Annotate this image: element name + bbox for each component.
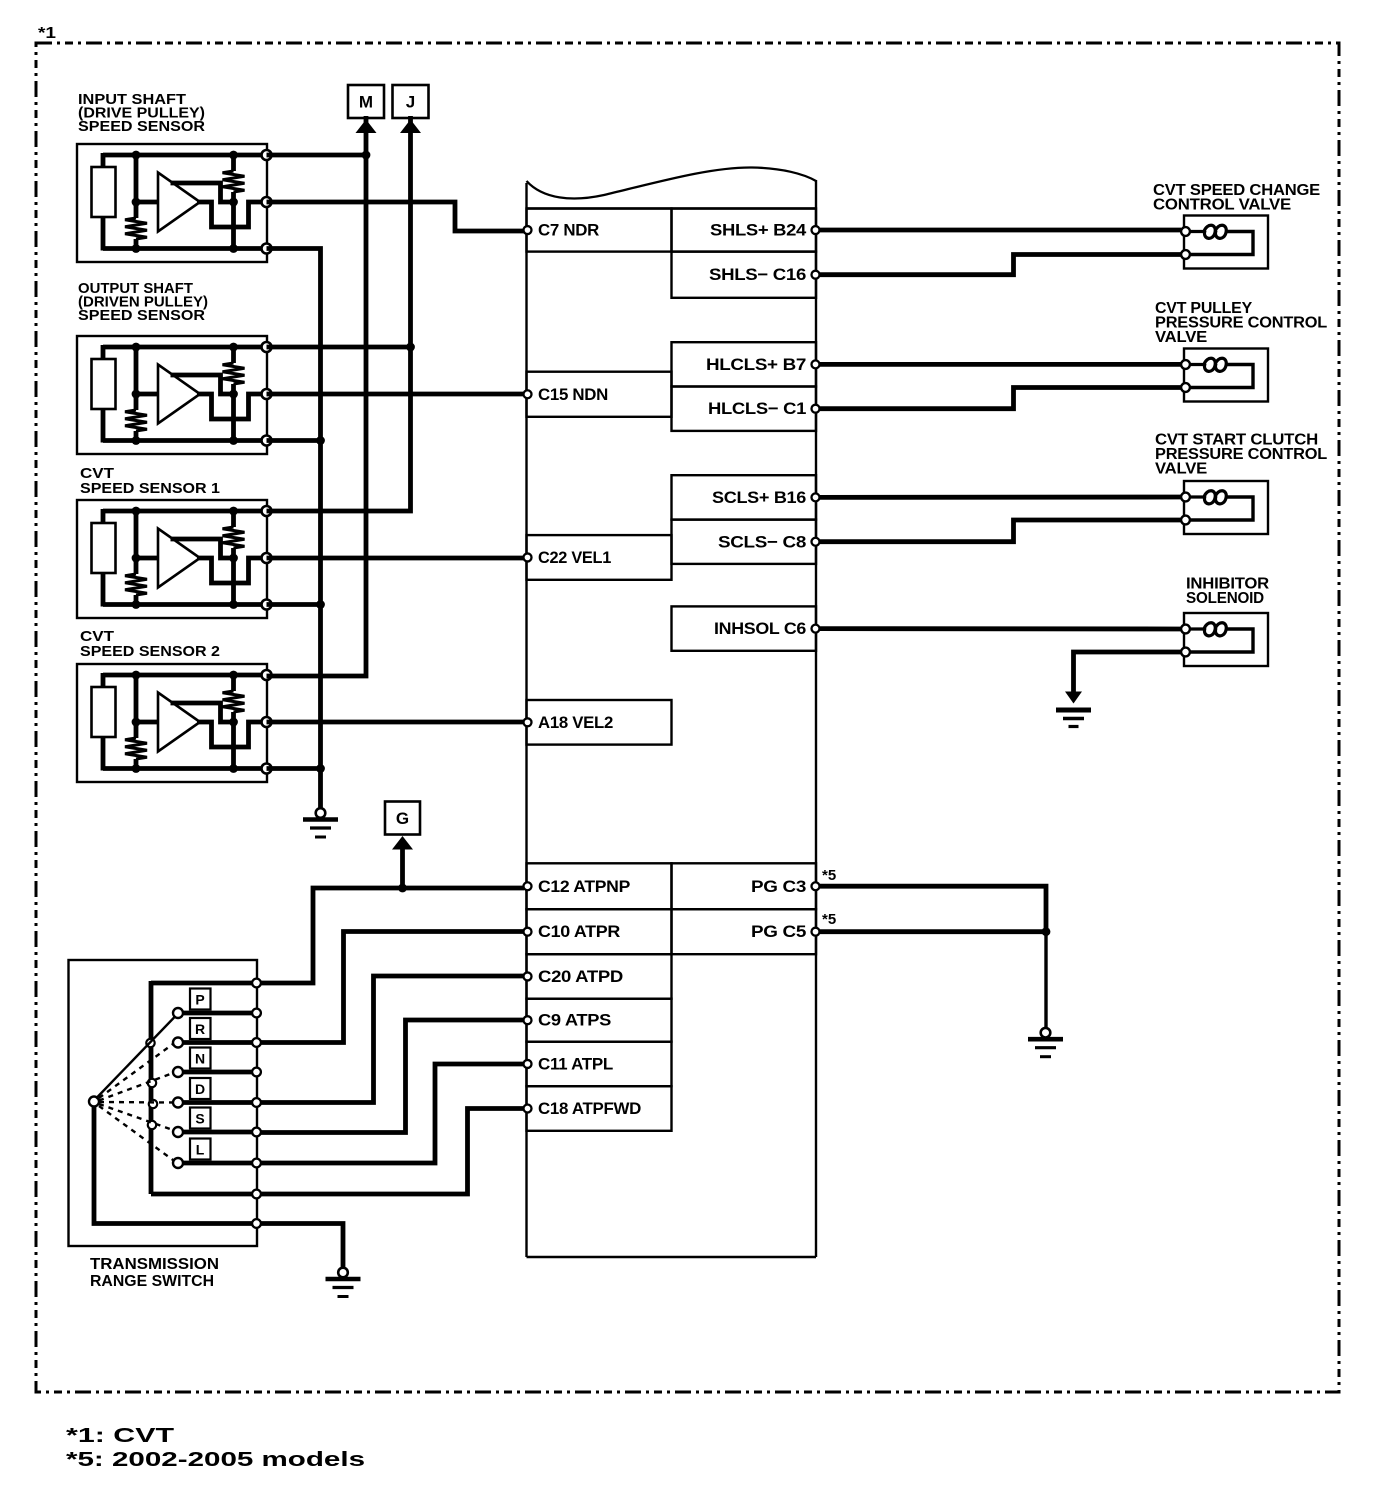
svg-text:TRANSMISSION: TRANSMISSION: [90, 1256, 219, 1273]
svg-text:S: S: [195, 1111, 204, 1127]
connector J arrow: [400, 120, 421, 134]
svg-text:R: R: [195, 1021, 205, 1037]
svg-text:SOLENOID: SOLENOID: [1186, 590, 1264, 607]
wire: PG junction down to ground: [1044, 932, 1047, 1029]
CVT speed sensor 2 resistor R2 (feedback): [223, 691, 245, 712]
svg-text:SHLS− C16: SHLS− C16: [709, 265, 806, 284]
wire: INHSOL C6 to inhibitor solenoid: [819, 626, 1181, 631]
wire: ECU C11 ATPL to range switch L contact row: [259, 1064, 524, 1163]
ground (transmission range switch): [338, 1268, 348, 1278]
input shaft (drive pulley) speed sensor terminal pins: [262, 150, 272, 160]
inhibitor solenoid coil return wire: [1189, 629, 1253, 652]
ECU pin INHSOL C6 terminal: [812, 625, 820, 633]
ECU pin SCLS+ B16 terminal: [812, 493, 820, 501]
range switch position label R: [190, 1018, 211, 1039]
range switch N contact row wire: [183, 1070, 257, 1075]
range switch S contact: [173, 1127, 183, 1137]
range switch wiper throw to L (dashed): [99, 1106, 173, 1160]
ECU pin cell PG C3: [672, 863, 817, 909]
output shaft (driven pulley) speed sensor junction dots: [132, 343, 141, 352]
input shaft (drive pulley) speed sensor sensing element (magnetic pickup): [92, 167, 116, 217]
wire: ECU C20 ATPD to range switch D contact row: [259, 976, 524, 1103]
wire: HLCLS+ B7 to CVT pulley pressure control valve: [819, 362, 1181, 367]
transmission range switch outer box: [69, 960, 258, 1246]
CVT speed sensor 1 feedback branch wire: [231, 511, 236, 527]
output shaft (driven pulley) speed sensor internal bottom rail wire: [103, 438, 267, 443]
svg-text:HLCLS+ B7: HLCLS+ B7: [706, 355, 806, 374]
ECU pin C20 ATPD terminal: [524, 972, 532, 980]
svg-text:SHLS+ B24: SHLS+ B24: [710, 221, 807, 240]
wire: ECU C9 ATPS to range switch S contact row: [259, 1020, 524, 1133]
svg-text:*1: *1: [38, 25, 56, 42]
ECU pin SHLS- C16 terminal: [812, 271, 820, 279]
input shaft (drive pulley) speed sensor feedback wire: [171, 183, 234, 202]
ECU pin HLCLS+ B7 terminal: [812, 360, 820, 368]
CVT pulley pressure control valve terminal pins: [1181, 360, 1190, 369]
ECU pin C7 NDR terminal: [524, 226, 532, 234]
svg-text:RANGE SWITCH: RANGE SWITCH: [90, 1273, 214, 1290]
range switch position label L: [190, 1139, 211, 1160]
ECU pin cell C7 NDR: [527, 209, 672, 252]
svg-text:SCLS+ B16: SCLS+ B16: [712, 488, 806, 507]
svg-text:P: P: [195, 992, 204, 1008]
output shaft (driven pulley) speed sensor left rail wire with sensing element: [101, 345, 106, 361]
svg-text:M: M: [359, 93, 373, 112]
output shaft (driven pulley) speed sensor feedback wire: [171, 375, 234, 394]
ECU pin cell C18 ATPFWD: [527, 1086, 672, 1131]
CVT speed sensor 1 feedback wire: [171, 539, 234, 558]
ECU pin cell C22 VEL1: [527, 535, 672, 580]
ECU pin cell C10 ATPR: [527, 909, 672, 954]
svg-text:C12 ATPNP: C12 ATPNP: [538, 877, 630, 896]
range switch L contact: [173, 1158, 183, 1168]
ECU box bottom edge: [527, 1256, 817, 1258]
connector G box: [385, 802, 420, 835]
wire: SHLS- C16 to CVT speed change control valve: [819, 255, 1181, 275]
ECU pin C22 VEL1 terminal: [524, 553, 532, 561]
wire: M connector vertical to CVT speed sensor 2 top: [267, 116, 367, 676]
wire: SHLS+ B24 to CVT speed change control valve: [819, 228, 1181, 233]
ECU pin PG C3 terminal: [812, 882, 820, 890]
ECU pin cell SCLS+ B16: [672, 475, 817, 519]
CVT speed sensor 2 bias branch wire: [134, 675, 139, 738]
ECU pin C11 ATPL terminal: [524, 1060, 532, 1068]
ECU pin cell C9 ATPS: [527, 999, 672, 1042]
input shaft (drive pulley) speed sensor junction dots: [132, 151, 141, 160]
CVT speed sensor 2 internal bottom rail wire: [103, 766, 267, 771]
ECU pin cell HLCLS+ B7: [672, 342, 817, 386]
CVT speed sensor 1 sensing element (magnetic pickup): [92, 523, 116, 573]
svg-text:C11 ATPL: C11 ATPL: [538, 1054, 613, 1073]
wire: ECU C10 ATPR to range switch R contact row: [259, 932, 524, 1043]
svg-text:*5: 2002-2005 models: *5: 2002-2005 models: [66, 1449, 365, 1471]
junction: J wire to output shaft sensor top: [406, 343, 415, 352]
ECU pin cell C11 ATPL: [527, 1042, 672, 1087]
wire: CVT speed sensor 1 ground to bus: [267, 602, 321, 607]
output shaft (driven pulley) speed sensor op-amp: [158, 365, 200, 424]
range switch position label S: [190, 1108, 211, 1129]
svg-text:INHSOL C6: INHSOL C6: [714, 619, 806, 638]
range switch position label D: [190, 1078, 211, 1099]
connector J box: [393, 85, 429, 118]
range switch P contact row wire: [183, 1011, 257, 1016]
svg-text:G: G: [396, 809, 409, 828]
svg-text:VALVE: VALVE: [1155, 461, 1207, 478]
range switch common pole contact: [89, 1097, 99, 1107]
input shaft (drive pulley) speed sensor feedback branch wire: [231, 155, 236, 171]
svg-text:SPEED SENSOR 2: SPEED SENSOR 2: [80, 643, 220, 660]
CVT speed sensor 1 junction dots: [132, 507, 141, 516]
input shaft (drive pulley) speed sensor bias branch wire: [134, 155, 139, 218]
wire: ECU C12 ATPNP to range switch common row: [259, 888, 524, 983]
svg-text:C9 ATPS: C9 ATPS: [538, 1011, 611, 1030]
CVT start clutch pressure control valve coil return wire: [1189, 497, 1253, 520]
svg-text:VALVE: VALVE: [1155, 329, 1207, 346]
ECU pin cell C15 NDN: [527, 372, 672, 417]
range switch D contact: [173, 1098, 183, 1108]
svg-text:J: J: [406, 93, 415, 112]
svg-text:SPEED SENSOR: SPEED SENSOR: [78, 307, 205, 324]
connector G arrow: [392, 836, 413, 850]
CVT speed sensor 1 resistor R2 (feedback): [223, 527, 245, 548]
input shaft (drive pulley) speed sensor op-amp input wire: [136, 200, 159, 205]
wire: PG C5 to ground: [819, 929, 1046, 934]
svg-text:SPEED SENSOR: SPEED SENSOR: [78, 118, 205, 135]
svg-text:C15 NDN: C15 NDN: [538, 385, 608, 404]
ground (speed sensors): [316, 808, 326, 818]
wire: G connector to ECU C12 ATPNP wire: [400, 848, 405, 888]
range switch wiper arm (P position, solid): [96, 1016, 176, 1099]
wire: SCLS- C8 to CVT start clutch pressure control valve: [819, 520, 1181, 542]
output shaft (driven pulley) speed sensor outer box: [77, 336, 267, 454]
wire: output shaft sensor ground to bus: [267, 438, 321, 443]
output shaft (driven pulley) speed sensor terminal pins: [262, 342, 272, 352]
ECU pin HLCLS- C1 terminal: [812, 405, 820, 413]
range switch position label P: [190, 989, 211, 1010]
CVT speed sensor 2 terminal pins: [262, 670, 272, 680]
ECU pin cell SHLS- C16: [672, 252, 817, 298]
connector M arrow: [356, 120, 377, 134]
svg-text:HLCLS− C1: HLCLS− C1: [708, 399, 806, 418]
inhibitor solenoid terminal pins: [1181, 625, 1190, 634]
CVT speed sensor 2 resistor R1 (bias): [125, 738, 147, 759]
output shaft (driven pulley) speed sensor feedback branch wire: [231, 347, 236, 363]
ECU box torn wavy top edge: [527, 167, 817, 198]
ECU pin cell A18 VEL2: [527, 700, 672, 745]
ECU pin cell SCLS- C8: [672, 520, 817, 564]
CVT speed sensor 2 sensing element (magnetic pickup): [92, 687, 116, 737]
CVT speed change control valve box: [1184, 216, 1268, 269]
ECU top separator line: [527, 207, 817, 209]
svg-text:SCLS− C8: SCLS− C8: [718, 532, 806, 551]
output shaft (driven pulley) speed sensor op-amp input wire: [136, 392, 159, 397]
ground (inhibitor solenoid): [1065, 692, 1082, 704]
input shaft (drive pulley) speed sensor left rail wire with sensing element: [101, 153, 106, 169]
wire: sensor ground bus: [267, 249, 321, 810]
ECU pin cell HLCLS- C1: [672, 387, 817, 431]
input shaft (drive pulley) speed sensor outer box: [77, 144, 267, 262]
CVT pulley pressure control valve coil winding: [1189, 358, 1226, 371]
CVT start clutch pressure control valve coil winding: [1189, 491, 1226, 504]
range switch S contact row wire: [183, 1130, 257, 1135]
wire: range switch common pole to ground: [259, 1224, 343, 1269]
ECU pin C12 ATPNP terminal: [524, 882, 532, 890]
wire: CVT speed sensor 2 ground to bus: [267, 766, 321, 771]
output shaft (driven pulley) speed sensor output wire (stepped): [197, 394, 267, 419]
svg-text:L: L: [196, 1142, 205, 1158]
range switch R contact row wire: [183, 1040, 257, 1045]
inhibitor solenoid coil winding: [1189, 623, 1226, 636]
CVT speed change control valve terminal pins: [1181, 227, 1190, 236]
range switch wiper throw to D (dashed): [99, 1101, 173, 1104]
CVT speed sensor 2 junction dots: [132, 671, 141, 680]
ECU pin SCLS- C8 terminal: [812, 538, 820, 546]
ECU pin SHLS+ B24 terminal: [812, 226, 820, 234]
svg-text:N: N: [195, 1051, 205, 1067]
wire: output shaft sensor output to ECU C15 NDN: [267, 392, 525, 397]
svg-text:C20 ATPD: C20 ATPD: [538, 967, 623, 986]
range switch N contact: [173, 1067, 183, 1077]
wire: HLCLS- C1 to CVT pulley pressure control valve: [819, 388, 1181, 409]
output shaft (driven pulley) speed sensor internal top rail wire: [103, 345, 267, 350]
svg-text:C10 ATPR: C10 ATPR: [538, 922, 620, 941]
wire: CVT speed sensor 1 output to ECU C22 VEL1: [267, 556, 525, 561]
range switch L contact row wire: [183, 1161, 257, 1166]
range switch terminal pins: [252, 979, 261, 988]
ECU pin cell C20 ATPD: [527, 954, 672, 999]
range switch internal bus (bottom row): [151, 1192, 257, 1197]
CVT speed sensor 2 left rail wire with sensing element: [101, 673, 106, 689]
range switch wiper throw to N (dashed): [99, 1073, 173, 1101]
wire: SCLS+ B16 to CVT start clutch pressure control valve: [819, 495, 1181, 500]
CVT speed sensor 1 left rail wire with sensing element: [101, 509, 106, 525]
range switch position label N: [190, 1048, 211, 1069]
ECU pin cell PG C5: [672, 909, 817, 954]
svg-text:*1: CVT: *1: CVT: [66, 1425, 174, 1447]
svg-text:SPEED SENSOR 1: SPEED SENSOR 1: [80, 480, 220, 497]
junction: PG wires: [1042, 927, 1051, 936]
wire: input shaft sensor output to ECU C7 NDR: [267, 202, 525, 231]
ECU pin PG C5 terminal: [812, 928, 820, 936]
CVT start clutch pressure control valve box: [1184, 481, 1268, 534]
range switch D contact row wire: [183, 1100, 257, 1105]
input shaft (drive pulley) speed sensor internal bottom rail wire: [103, 246, 267, 251]
input shaft (drive pulley) speed sensor resistor R2 (feedback): [223, 171, 245, 192]
ECU pin A18 VEL2 terminal: [524, 718, 532, 726]
range switch wiper throw to S (dashed): [99, 1104, 173, 1130]
range switch wiper throw to R (dashed): [99, 1044, 173, 1098]
CVT speed change control valve coil winding: [1189, 225, 1226, 238]
CVT start clutch pressure control valve terminal pins: [1181, 493, 1190, 502]
ECU (TCM) box left edge: [525, 183, 527, 1257]
wire: output shaft sensor top to J wire: [267, 345, 411, 350]
wire: input shaft sensor top to M wire: [267, 153, 367, 158]
output shaft (driven pulley) speed sensor bias branch wire: [134, 347, 139, 410]
input shaft (drive pulley) speed sensor resistor R1 (bias): [125, 218, 147, 239]
CVT speed sensor 2 internal top rail wire: [103, 673, 267, 678]
ECU pin C9 ATPS terminal: [524, 1016, 532, 1024]
range switch common pole wire: [94, 1104, 257, 1224]
ECU pin C10 ATPR terminal: [524, 928, 532, 936]
CVT speed sensor 2 output wire (stepped): [197, 722, 267, 747]
input shaft (drive pulley) speed sensor internal top rail wire: [103, 153, 267, 158]
range switch internal bus (vertical): [149, 981, 154, 1194]
svg-text:C18 ATPFWD: C18 ATPFWD: [538, 1099, 641, 1118]
input shaft (drive pulley) speed sensor op-amp: [158, 173, 200, 232]
CVT speed sensor 1 op-amp input wire: [136, 556, 159, 561]
junction: M wire to input shaft sensor top: [362, 151, 371, 160]
svg-text:D: D: [195, 1081, 205, 1097]
CVT speed sensor 2 feedback branch wire: [231, 675, 236, 691]
CVT speed sensor 2 op-amp: [158, 693, 200, 752]
svg-text:C7 NDR: C7 NDR: [538, 221, 599, 240]
ECU pin cell INHSOL C6: [672, 606, 817, 650]
wire: J connector vertical to CVT speed sensor 1 top: [267, 116, 411, 511]
CVT speed sensor 1 op-amp: [158, 529, 200, 588]
CVT speed sensor 1 output wire (stepped): [197, 558, 267, 583]
output shaft (driven pulley) speed sensor resistor R2 (feedback): [223, 363, 245, 384]
ECU pin C15 NDN terminal: [524, 390, 532, 398]
CVT speed change control valve coil return wire: [1189, 232, 1253, 255]
svg-text:*5: *5: [822, 867, 836, 884]
svg-text:*5: *5: [822, 911, 836, 928]
range switch P contact: [173, 1008, 183, 1018]
output shaft (driven pulley) speed sensor sensing element (magnetic pickup): [92, 359, 116, 409]
wire: inhibitor solenoid to ground: [1074, 652, 1182, 698]
connector M box: [348, 85, 384, 118]
CVT speed sensor 2 op-amp input wire: [136, 720, 159, 725]
inhibitor solenoid box: [1184, 613, 1268, 666]
ground (PG): [1041, 1028, 1051, 1038]
CVT speed sensor 1 terminal pins: [262, 506, 272, 516]
wire: CVT speed sensor 2 output to ECU A18 VEL2: [267, 720, 525, 725]
ECU pin C18 ATPFWD terminal: [524, 1105, 532, 1113]
output shaft (driven pulley) speed sensor resistor R1 (bias): [125, 410, 147, 431]
range switch internal bus (top row): [151, 981, 257, 986]
svg-text:C22 VEL1: C22 VEL1: [538, 548, 611, 567]
ECU pin cell SHLS+ B24: [672, 209, 817, 252]
wire: ECU C18 ATPFWD to range switch bus row: [259, 1109, 524, 1195]
ECU box right edge: [815, 180, 817, 1257]
CVT speed sensor 1 resistor R1 (bias): [125, 574, 147, 595]
CVT speed sensor 1 outer box: [77, 500, 267, 618]
CVT pulley pressure control valve coil return wire: [1189, 365, 1253, 388]
range switch R contact: [173, 1038, 183, 1048]
wire: PG C3 to ground: [819, 886, 1046, 932]
CVT speed sensor 1 internal top rail wire: [103, 509, 267, 514]
CVT speed sensor 2 feedback wire: [171, 703, 234, 722]
input shaft (drive pulley) speed sensor output wire (stepped): [197, 202, 267, 227]
CVT speed sensor 1 bias branch wire: [134, 511, 139, 574]
CVT pulley pressure control valve box: [1184, 349, 1268, 402]
svg-text:PG C5: PG C5: [751, 922, 806, 941]
svg-text:A18 VEL2: A18 VEL2: [538, 713, 613, 732]
svg-text:PG C3: PG C3: [751, 877, 806, 896]
CVT speed sensor 1 internal bottom rail wire: [103, 602, 267, 607]
CVT speed sensor 2 outer box: [77, 664, 267, 782]
range switch bus contact points: [146, 1039, 154, 1047]
svg-text:CONTROL VALVE: CONTROL VALVE: [1153, 197, 1291, 214]
ECU pin cell C12 ATPNP: [527, 863, 672, 909]
